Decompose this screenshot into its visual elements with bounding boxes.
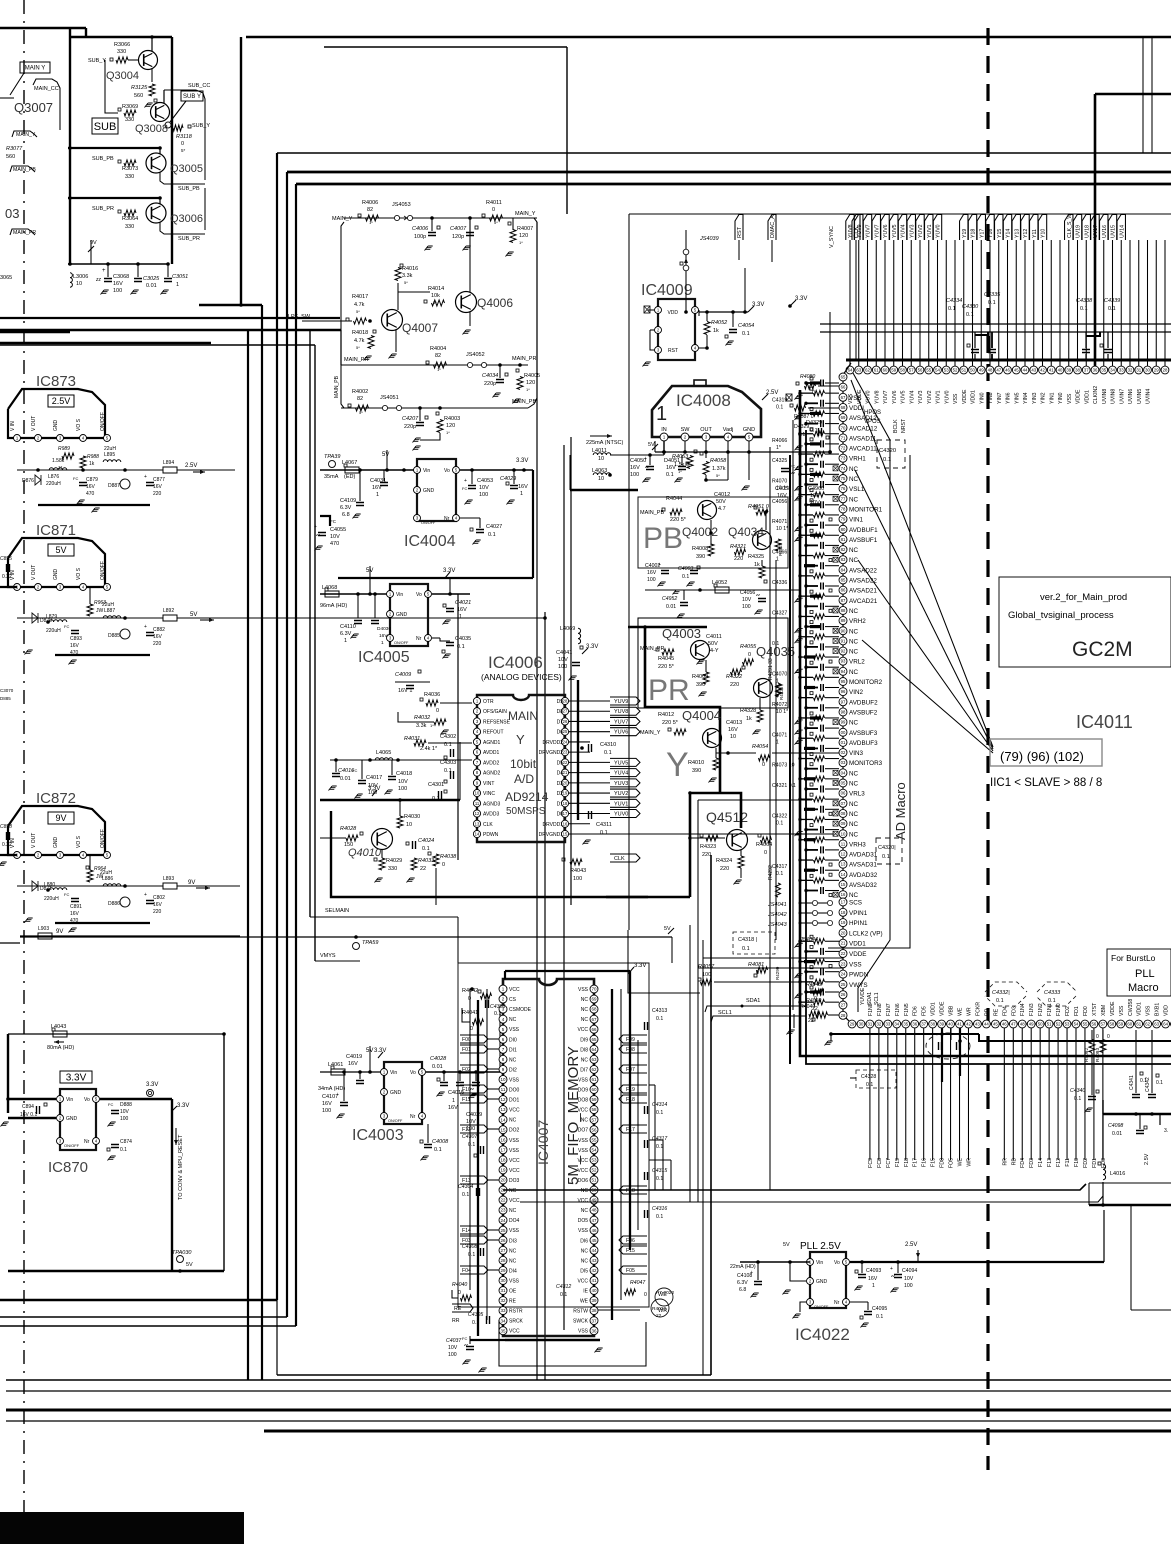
wire	[320, 837, 346, 839]
svg-text:79: 79	[841, 517, 846, 522]
0.8	[795, 669, 803, 674]
svg-text:C4334: C4334	[946, 298, 962, 304]
pin 79 VIN1 of IC4011 left column	[839, 515, 847, 523]
pin 3 ON/OFF	[807, 1299, 814, 1306]
pin 38 of IC4011 top row	[1074, 366, 1082, 374]
svg-text:FD4: FD4	[1020, 1158, 1026, 1168]
svg-text:87: 87	[841, 598, 846, 603]
svg-text:HPIN1: HPIN1	[849, 920, 868, 927]
svg-text:F09: F09	[626, 1037, 635, 1043]
pin 01 AVDBUF3 of IC4011 left column	[839, 738, 847, 746]
svg-text:C4017: C4017	[366, 775, 382, 781]
pin 42 of IC4011 bottom row	[965, 1020, 973, 1028]
svg-text:C4110: C4110	[340, 624, 356, 630]
wire	[825, 565, 839, 567]
svg-text:55: 55	[926, 368, 931, 373]
wire	[878, 1028, 880, 1160]
svg-text:16V: 16V	[448, 1105, 458, 1111]
bypass resistor	[814, 1000, 825, 1005]
ground	[595, 1348, 603, 1353]
transistor	[382, 310, 403, 331]
svg-text:Nr: Nr	[416, 636, 422, 642]
wire bus lower 1	[503, 1184, 1086, 1190]
pin 2 CS of IC4007	[499, 995, 507, 1003]
svg-text:NC: NC	[509, 1017, 517, 1023]
capacitor	[821, 420, 824, 427]
pin 57 NC of IC4007	[590, 1116, 598, 1124]
svg-text:C882: C882	[153, 627, 165, 633]
svg-text:37: 37	[1084, 368, 1089, 373]
inductor L879	[49, 620, 67, 622]
svg-text:DI6: DI6	[580, 1238, 588, 1244]
svg-text:FD5: FD5	[922, 1006, 928, 1016]
bypass resistor	[814, 634, 825, 639]
pin 11 AGND3 of IC4006	[473, 800, 480, 807]
resistor R4064	[761, 837, 772, 843]
resistor R4321	[735, 549, 746, 555]
wire	[806, 402, 818, 404]
wire	[914, 1028, 916, 1160]
wire	[825, 646, 839, 648]
wire	[443, 1072, 445, 1081]
svg-text:C4305: C4305	[468, 1312, 483, 1318]
svg-text:VSS: VSS	[578, 987, 589, 993]
svg-text:IC870: IC870	[48, 1159, 88, 1176]
svg-text:+: +	[890, 1266, 893, 1272]
svg-text:+: +	[750, 1270, 753, 1276]
pin 97 AVDBUF2 of IC4011 left column	[839, 698, 847, 706]
svg-text:C4095: C4095	[872, 1306, 887, 1312]
capacitor	[1136, 1131, 1144, 1134]
pin 60 DO9 of IC4007	[590, 1086, 598, 1094]
svg-text:R4291 33: R4291 33	[768, 658, 774, 680]
0.8	[795, 943, 803, 948]
pin 26 DI3 of IC4007	[499, 1236, 507, 1244]
capacitor	[690, 571, 698, 574]
capacitor	[821, 380, 824, 387]
wire	[800, 636, 813, 638]
svg-text:WE: WE	[958, 1007, 964, 1016]
svg-text:30: 30	[1145, 368, 1150, 373]
svg-text:L892: L892	[163, 608, 174, 614]
wire	[0, 586, 17, 588]
svg-text:Vin: Vin	[390, 1070, 397, 1076]
wire	[628, 214, 630, 930]
pin 4 RST	[692, 345, 699, 352]
svg-text:2.4k 1*: 2.4k 1*	[420, 746, 438, 752]
pin 46 VSS of IC4007	[590, 1226, 598, 1234]
bypass resistor	[814, 614, 825, 619]
wire	[1084, 1028, 1086, 1160]
net tag YUV0	[933, 215, 941, 241]
svg-text:R988: R988	[87, 454, 99, 460]
svg-text:VDD1: VDD1	[1137, 1002, 1143, 1016]
wire junction bar	[810, 381, 821, 384]
inductor L4069	[578, 628, 581, 644]
svg-text:JS4042: JS4042	[767, 912, 787, 918]
pin 64 DI8 of IC4007	[590, 1045, 598, 1053]
svg-text:zz: zz	[95, 277, 102, 283]
svg-text:0.1: 0.1	[1108, 306, 1116, 312]
svg-text:FD3: FD3	[1011, 1006, 1017, 1016]
svg-text:AGND1: AGND1	[483, 740, 500, 746]
pin 32 of IC4011 bottom row	[875, 1020, 883, 1028]
svg-text:OE: OE	[509, 1289, 517, 1295]
wire	[536, 222, 538, 1380]
wire	[867, 1302, 869, 1310]
svg-text:18: 18	[841, 910, 846, 915]
wire	[159, 198, 161, 204]
pin 7 AVDD2 of IC4006	[473, 759, 480, 766]
net stub YUV0	[610, 810, 640, 818]
dashed capacitor C4321b	[876, 838, 902, 864]
wire	[825, 595, 839, 597]
diagonal pointer 4	[862, 640, 993, 753]
transistor	[703, 729, 722, 748]
svg-text:Vo: Vo	[444, 468, 450, 474]
svg-text:MAIN_Y: MAIN_Y	[515, 211, 536, 217]
svg-text:F11: F11	[462, 1097, 471, 1103]
capacitor	[821, 562, 824, 569]
wire	[825, 747, 839, 749]
svg-text:L4068: L4068	[322, 585, 337, 591]
svg-text:60: 60	[1127, 1022, 1132, 1027]
capacitor	[1088, 1097, 1096, 1100]
ground	[69, 660, 77, 665]
pin 65 DI9 of IC4007	[590, 1035, 598, 1043]
svg-text:39: 39	[1066, 368, 1071, 373]
pin 87 AVCAD21 of IC4011 left column	[839, 596, 847, 604]
pin 35 VCC of IC4007	[499, 1327, 507, 1335]
wire	[670, 1160, 672, 1190]
svg-text:R4016: R4016	[402, 266, 418, 272]
net tag Y16	[986, 215, 994, 241]
pin 3 ON/OFF	[387, 635, 394, 642]
svg-text:FC: FC	[64, 892, 69, 897]
wire	[825, 412, 839, 414]
svg-text:43: 43	[591, 1258, 597, 1263]
transistor	[754, 679, 773, 698]
capacitor	[821, 684, 824, 691]
svg-text:YUV2: YUV2	[918, 224, 924, 238]
svg-text:AVSAD22: AVSAD22	[849, 567, 877, 574]
svg-text:28: 28	[841, 1013, 846, 1018]
svg-text:NC: NC	[849, 628, 859, 635]
svg-text:F15: F15	[931, 1158, 937, 1167]
resistor R4044	[670, 509, 682, 515]
net stub F17	[619, 1125, 647, 1133]
svg-text:62: 62	[1145, 1022, 1150, 1027]
dashed capacitor C4328	[856, 1070, 896, 1088]
svg-text:470: 470	[86, 491, 95, 497]
wire	[831, 1033, 979, 1035]
regulator IC873 outline	[8, 389, 105, 438]
inductor	[331, 1069, 345, 1075]
pin 17 VSS of IC4007	[499, 1146, 507, 1154]
svg-text:VINT: VINT	[483, 781, 494, 787]
svg-text:C4332|: C4332|	[992, 990, 1010, 996]
svg-text:Q3007: Q3007	[14, 100, 53, 115]
svg-text:FC: FC	[462, 486, 467, 491]
svg-text:V OUT: V OUT	[31, 833, 37, 848]
capacitor	[477, 1188, 480, 1196]
pin 78 MONITOR1 of IC4011 left column	[839, 505, 847, 513]
resistor R4051	[756, 509, 768, 515]
svg-text:NC: NC	[849, 821, 859, 828]
wire	[1102, 1114, 1104, 1160]
svg-text:YIN5: YIN5	[1014, 392, 1020, 404]
transistor	[753, 531, 772, 550]
wire junction bar	[810, 442, 821, 445]
svg-text:UVIN7: UVIN7	[1119, 389, 1125, 404]
svg-text:C802: C802	[153, 895, 165, 901]
wire	[341, 364, 528, 366]
wire	[628, 930, 700, 993]
wire	[681, 455, 683, 465]
svg-text:10: 10	[730, 734, 736, 740]
svg-text:VDDE: VDDE	[1110, 1001, 1116, 1016]
svg-text:ON/OFF: ON/OFF	[64, 1143, 80, 1148]
wire	[825, 443, 839, 445]
svg-text:33: 33	[500, 1308, 506, 1313]
svg-text:DO1: DO1	[509, 1098, 520, 1104]
svg-text:23: 23	[563, 750, 568, 755]
resistor R4018	[368, 336, 374, 349]
pin 96 VIN2 of IC4011 left column	[839, 688, 847, 696]
ground	[479, 1368, 487, 1373]
wire	[1138, 240, 1140, 366]
svg-text:F1N5: F1N5	[904, 1003, 910, 1016]
svg-text:AVDAD32: AVDAD32	[849, 872, 878, 879]
svg-text:F07: F07	[626, 1067, 635, 1073]
ground	[463, 246, 471, 251]
svg-text:VINC: VINC	[483, 791, 495, 797]
svg-text:16V: 16V	[153, 634, 163, 640]
transistor	[727, 830, 748, 851]
svg-text:26: 26	[563, 719, 568, 724]
svg-text:C4035: C4035	[455, 636, 471, 642]
wire	[697, 800, 699, 930]
pin 13 AVSAD31 of IC4011 left column	[839, 860, 847, 868]
svg-text:YIN0: YIN0	[979, 392, 985, 404]
svg-text:R4010: R4010	[688, 760, 704, 766]
svg-text:45: 45	[1014, 368, 1019, 373]
wire	[449, 578, 451, 594]
wire	[671, 937, 673, 963]
svg-text:R4321: R4321	[730, 544, 746, 550]
wire	[861, 1262, 863, 1273]
ground	[855, 1286, 863, 1291]
wire	[361, 760, 363, 779]
svg-text:L4043: L4043	[51, 1024, 66, 1030]
wire	[825, 1001, 839, 1003]
pin 11 VRH3 of IC4011 left column	[839, 840, 847, 848]
svg-text:41: 41	[1049, 368, 1054, 373]
wire	[1129, 240, 1131, 366]
wire	[55, 654, 150, 656]
resistor R4080	[805, 383, 816, 389]
pin 1 VCC of IC4007	[499, 985, 507, 993]
pin 48 of IC4011 bottom row	[1018, 1020, 1026, 1028]
wire	[6, 1379, 1171, 1381]
IC4007 outer box	[458, 963, 649, 1307]
svg-text:56: 56	[1092, 1022, 1097, 1027]
pin 4 Nr	[419, 1113, 426, 1120]
bypass resistor	[814, 776, 825, 781]
wire	[800, 879, 813, 881]
wire	[8, 1117, 56, 1119]
pin 12 DO1 of IC4007	[499, 1096, 507, 1104]
svg-text:73: 73	[841, 456, 846, 461]
svg-text:PWDN: PWDN	[849, 972, 869, 979]
ground	[25, 650, 33, 655]
ground	[108, 1156, 116, 1161]
svg-text:5V: 5V	[783, 1242, 790, 1248]
svg-text:MONITOR3: MONITOR3	[849, 760, 883, 767]
svg-text:1*: 1*	[519, 240, 523, 245]
wire	[825, 504, 839, 506]
capacitor	[821, 867, 824, 874]
svg-text:53: 53	[591, 1157, 597, 1162]
wire	[703, 957, 843, 959]
capacitor	[111, 1111, 119, 1114]
wire	[459, 742, 461, 800]
svg-text:VSS: VSS	[578, 1228, 589, 1234]
wire	[800, 514, 813, 516]
svg-text:RE: RE	[454, 1306, 462, 1312]
pin 1 Vin	[57, 1096, 64, 1103]
wire	[85, 28, 87, 37]
svg-text:IC4006: IC4006	[488, 653, 543, 672]
wire	[1085, 332, 1087, 348]
pin 10 VINC of IC4006	[473, 789, 480, 796]
wire junction bar	[810, 625, 821, 628]
pin 35 of IC4011 top row	[1100, 366, 1108, 374]
svg-text:0.1: 0.1	[988, 300, 996, 306]
svg-text:D876: D876	[22, 478, 34, 484]
ground	[413, 446, 421, 451]
pin 45 of IC4011 bottom row	[991, 1020, 999, 1028]
wire	[1091, 1030, 1093, 1040]
svg-text:YUV4: YUV4	[901, 224, 907, 238]
svg-text:11: 11	[475, 801, 480, 806]
svg-text:1k: 1k	[754, 562, 760, 568]
wire	[963, 240, 965, 366]
pin 64 of IC4011 bottom row	[1162, 1020, 1170, 1028]
svg-text:NC: NC	[849, 831, 859, 838]
svg-text:40: 40	[948, 1022, 953, 1027]
svg-text:VSS: VSS	[953, 393, 959, 404]
wire	[689, 925, 691, 1202]
pin 68 NC of IC4007	[590, 1005, 598, 1013]
pad TPA59	[353, 943, 360, 950]
svg-text:CLK_S_W: CLK_S_W	[1067, 214, 1073, 238]
capacitor	[413, 841, 416, 849]
wire	[6, 1409, 1171, 1412]
wire junction bar	[804, 838, 815, 841]
svg-text:0.01: 0.01	[146, 283, 157, 289]
net tag YUV8	[846, 215, 854, 241]
svg-text:VRH2: VRH2	[849, 618, 866, 625]
pin 30 VSS of IC4007	[499, 1276, 507, 1284]
pin 80 AVDBUF1 of IC4011 left column	[839, 525, 847, 533]
pin 1 Vin	[381, 1069, 388, 1076]
svg-text:NC: NC	[849, 466, 859, 473]
wire	[1130, 1205, 1132, 1310]
svg-text:19: 19	[841, 920, 846, 925]
capacitor	[821, 887, 824, 894]
resistor R4087	[795, 405, 806, 411]
pin 5 Vo	[453, 467, 460, 474]
svg-text:UVIN8: UVIN8	[1102, 389, 1108, 404]
svg-text:SDA1: SDA1	[867, 992, 873, 1005]
svg-text:D887: D887	[108, 483, 120, 489]
wire SDA1	[705, 1006, 806, 1012]
svg-text:MAIN Y: MAIN Y	[25, 66, 46, 72]
wire	[825, 818, 839, 820]
wire	[1155, 240, 1157, 366]
svg-text:SUB_Y: SUB_Y	[88, 58, 106, 64]
net tag YUV4	[898, 215, 906, 241]
svg-text:45: 45	[993, 1022, 998, 1027]
wire	[128, 59, 138, 61]
svg-text:zz: zz	[315, 532, 320, 537]
wire	[20, 935, 240, 937]
wire	[488, 1038, 499, 1040]
wire SUB bottom rail	[68, 263, 168, 265]
svg-text:0.1: 0.1	[776, 871, 783, 877]
svg-text:C4034: C4034	[482, 373, 498, 379]
svg-text:0.1: 0.1	[120, 1147, 127, 1153]
capacitor	[589, 811, 592, 819]
pin 2 GND	[414, 487, 421, 494]
svg-text:GND: GND	[66, 1116, 78, 1122]
svg-text:D3: D3	[557, 781, 564, 787]
pin 15 AVSAD32 of IC4011 left column	[839, 881, 847, 889]
svg-text:C894: C894	[22, 1104, 34, 1110]
capacitor	[7, 564, 10, 572]
svg-text:5V: 5V	[186, 1262, 193, 1268]
capacitor	[510, 486, 518, 489]
wire	[570, 437, 572, 905]
svg-text:NC: NC	[849, 638, 859, 645]
svg-text:10: 10	[406, 822, 412, 828]
svg-text:PDWN: PDWN	[483, 832, 499, 838]
wire	[1102, 1028, 1104, 1160]
svg-text:REFSENSE: REFSENSE	[483, 719, 511, 725]
wire	[706, 479, 728, 481]
svg-text:R989: R989	[58, 446, 70, 452]
wire	[89, 587, 91, 604]
svg-text:56: 56	[918, 368, 923, 373]
svg-text:51: 51	[961, 368, 966, 373]
capacitor	[821, 501, 824, 508]
resistor R4325	[759, 566, 765, 578]
svg-text:C4018: C4018	[396, 771, 412, 777]
svg-text:0.1: 0.1	[996, 998, 1004, 1004]
pin 6 AVDD1 of IC4006	[473, 749, 480, 756]
capacitor	[466, 233, 474, 236]
wire	[1015, 240, 1017, 366]
svg-text:28: 28	[563, 699, 568, 704]
svg-text:CLKIN2: CLKIN2	[1093, 386, 1099, 404]
sheet boundary heavy dashed line center-right	[986, 28, 989, 1470]
pin 32 RE of IC4007	[499, 1297, 507, 1305]
svg-text:34: 34	[500, 1318, 506, 1323]
capacitor inside	[957, 1042, 960, 1050]
wire	[825, 849, 839, 851]
svg-text:0.22: 0.22	[2, 574, 12, 580]
